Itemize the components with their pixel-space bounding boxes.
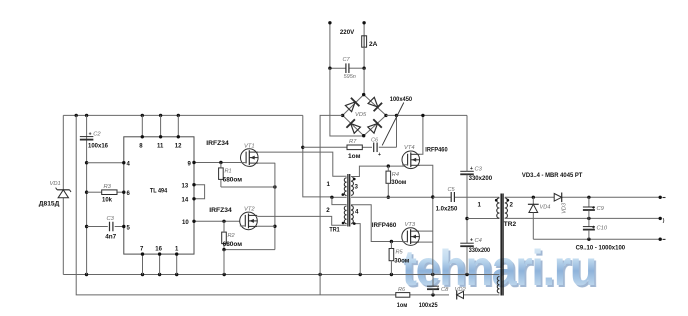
svg-text:11: 11 (157, 144, 164, 150)
label C2 value 100x16 (88, 142, 108, 149)
svg-text:+: + (378, 152, 381, 158)
label R3 value 10k (102, 196, 112, 203)
resistor R7 (347, 145, 362, 150)
capacitor C4 bus (330x200) (460, 243, 474, 246)
label C5 value 1.0x250 (436, 206, 458, 213)
resistor R2 (222, 221, 227, 249)
capacitor C8 (427, 275, 439, 295)
svg-text:680ом: 680ом (223, 241, 243, 248)
wire AC left to bridge bottom (330, 68, 364, 136)
wire left frame down to ground rail (62, 115, 64, 274)
svg-text:12: 12 (175, 144, 182, 150)
svg-text:10k: 10k (102, 196, 112, 203)
svg-text:14: 14 (182, 198, 189, 204)
wire second rail (aux +12 feed) (76, 115, 396, 295)
label R5 value 30ом (394, 257, 409, 264)
label C9..10 - 1000x100 (576, 245, 626, 252)
label R7 (349, 139, 357, 145)
svg-text:C9: C9 (597, 206, 605, 212)
svg-text:2A: 2A (369, 41, 378, 48)
wire pin 9 to VT1 gate (192, 161, 246, 164)
svg-text:+: + (89, 131, 92, 137)
capacitor C2 (80, 137, 94, 140)
bridge diode top-right (367, 96, 382, 111)
svg-text:VD3..4 - MBR 4045 PT: VD3..4 - MBR 4045 PT (522, 172, 583, 179)
diode VD2 (457, 290, 464, 299)
label VD3 rotated (562, 202, 568, 214)
label VT4 (404, 145, 415, 151)
svg-text:VD4: VD4 (540, 205, 551, 211)
transistor VT1 IRFZ34 (241, 149, 259, 167)
label TR1 winding 1 (327, 181, 331, 188)
wire R1 to source rail (221, 185, 277, 188)
svg-text:680ом: 680ом (223, 176, 243, 183)
fuse FU1 2A (362, 36, 367, 68)
wire output bottom (533, 238, 665, 241)
label VT2 (244, 207, 255, 213)
svg-text:Д815Д: Д815Д (39, 200, 60, 207)
svg-text:3: 3 (355, 184, 359, 191)
label +C9 (592, 206, 605, 212)
svg-text:10: 10 (182, 220, 189, 226)
label C3 value 4n7 (105, 234, 116, 241)
svg-text:1ом: 1ом (348, 153, 361, 160)
svg-text:R6: R6 (398, 287, 406, 293)
wire pin 11 stub (159, 115, 162, 138)
resistor R6 (396, 293, 410, 298)
svg-text:100x16: 100x16 (88, 142, 108, 149)
pin label 10 (182, 220, 189, 226)
wire wire2 R6 to VD2 (410, 293, 449, 296)
label R4 value 30ом (391, 179, 406, 186)
diode VD3 (554, 193, 562, 203)
pin labels 7 16 1 (140, 247, 179, 253)
label +C8 (437, 287, 450, 293)
svg-text:C3: C3 (475, 166, 483, 172)
wire pin 12 stub (177, 115, 180, 138)
label TR2 winding 2 (510, 202, 514, 209)
svg-text:VD2: VD2 (455, 287, 467, 293)
label R6 value 1ом (397, 302, 408, 309)
label TR1 winding 3 (355, 184, 359, 191)
label Д815Д value (39, 200, 60, 207)
svg-text:595n: 595n (344, 74, 356, 80)
label TR1 winding 2 (326, 207, 330, 214)
wire TR2 primary bottom (467, 218, 499, 220)
svg-text:4n7: 4n7 (105, 234, 116, 241)
label TR2 winding 1 (478, 202, 482, 209)
svg-text:30ом: 30ом (391, 179, 406, 186)
svg-text:220V: 220V (340, 29, 355, 36)
svg-text:TR2: TR2 (504, 221, 517, 228)
svg-text:R7: R7 (349, 139, 357, 145)
wire output middle (505, 217, 665, 224)
wire TR1 winding4 top to VT3 gate (351, 205, 407, 243)
svg-text:IRFZ34: IRFZ34 (209, 207, 232, 214)
transformer TR1 winding 4 (351, 206, 353, 224)
capacitor C10 (583, 218, 595, 239)
wire TR1 winding3 top to VT4 gate (351, 164, 408, 176)
svg-text:VT3: VT3 (405, 222, 416, 228)
label C5 (448, 187, 456, 193)
wire VT2 source (257, 225, 275, 227)
wire C5 coupling (433, 196, 500, 198)
svg-text:IRFP460: IRFP460 (372, 222, 397, 229)
pin label 4 (127, 162, 131, 168)
wire VT3 drain-source rail (419, 197, 433, 275)
label 2A (369, 41, 378, 48)
pin label 5 (127, 225, 131, 231)
resistor R5 (389, 242, 394, 275)
svg-text:1.0x250: 1.0x250 (436, 206, 458, 213)
svg-text:330x200: 330x200 (469, 247, 491, 254)
watermark tehnari.ru (402, 239, 596, 297)
label R4 (392, 172, 399, 178)
svg-text:1: 1 (327, 181, 331, 188)
label IRFZ34 for VT1 (206, 140, 229, 147)
svg-text:13: 13 (182, 184, 189, 190)
transformer TR1 winding 2 (344, 206, 346, 224)
svg-text:2: 2 (510, 202, 514, 209)
resistor R4 (386, 166, 391, 199)
transformer TR2 aux winding (497, 277, 499, 293)
wire pin 16 stub (158, 252, 161, 274)
wire pin 8 stub (141, 115, 144, 138)
svg-text:+: + (437, 287, 440, 293)
svg-text:+: + (470, 166, 473, 172)
capacitor C5 (451, 192, 454, 202)
TR1 phase dots (342, 178, 356, 225)
label R6 (398, 287, 406, 293)
svg-text:C7: C7 (343, 57, 351, 63)
label 100x450 with pointer (382, 96, 412, 145)
label VT1 (244, 144, 255, 150)
label C8 value 100x25 (419, 302, 438, 309)
svg-text:1ом: 1ом (397, 302, 408, 309)
svg-text:R1: R1 (225, 169, 232, 175)
wire +12V top rail (63, 114, 302, 117)
svg-text:16: 16 (155, 247, 162, 253)
svg-text:C6: C6 (371, 138, 379, 144)
capacitor C3 (110, 222, 113, 232)
wire sources to ground (222, 248, 275, 275)
label C3 (107, 216, 115, 222)
label 220V (340, 29, 355, 36)
bridge rectifier VD5 frame (341, 93, 388, 137)
svg-text:4: 4 (355, 208, 359, 215)
pin labels 8 11 12 (139, 144, 182, 150)
bridge diode bottom-right (367, 119, 382, 134)
svg-text:330x200: 330x200 (469, 175, 493, 182)
transformer TR1 winding 3 (351, 177, 353, 196)
wire bus plus rail down (465, 115, 468, 274)
label R7 value 1ом (348, 153, 361, 160)
label C3 value 330x200 (469, 175, 493, 182)
svg-text:TL 494: TL 494 (150, 187, 167, 194)
IC U1 TL494 box (124, 137, 194, 254)
wire VT2 drain to TR1 winding2 bottom (257, 216, 346, 225)
svg-text:C5: C5 (448, 187, 456, 193)
wire pin 6 with resistor R3 (87, 191, 126, 194)
label TR2 (504, 221, 517, 228)
wire bus plus (386, 114, 467, 117)
label R5 (396, 250, 404, 256)
label TL 494 (150, 187, 167, 194)
capacitor C6 (374, 143, 381, 158)
svg-text:2: 2 (326, 207, 330, 214)
wire VT4 drain to bus (420, 115, 423, 154)
label R1 value 680ом (223, 176, 243, 183)
pin label 14 (182, 198, 189, 204)
svg-text:R3: R3 (104, 184, 112, 190)
zener diode VD1 (56, 188, 71, 198)
label R2 (228, 233, 236, 239)
svg-text:IRFP460: IRFP460 (425, 146, 448, 153)
label R2 value 680ом (223, 241, 243, 248)
transformer TR2 core (501, 194, 503, 296)
svg-text:C8: C8 (441, 287, 449, 293)
wire TR1 center tap feed (301, 115, 332, 196)
wire TR1 winding4 bottom to ground (351, 224, 360, 275)
label R1 (225, 169, 232, 175)
TR2 phase dots (495, 199, 509, 202)
wire C2 branch line (85, 115, 88, 274)
wire 220V terminal left (328, 21, 331, 68)
diode VD4 (528, 197, 539, 239)
label C7 value 595n (344, 74, 356, 80)
svg-text:VT2: VT2 (244, 207, 255, 213)
svg-text:+: + (592, 206, 595, 212)
wire pin 1 stub (175, 252, 178, 274)
label VD5 (355, 112, 367, 118)
wire pin 4 (87, 161, 126, 164)
svg-text:+: + (592, 225, 595, 231)
transistor VT4 IRFP460 (402, 151, 420, 169)
pin label 13 (182, 184, 189, 190)
capacitor C9 (583, 197, 595, 218)
bridge diode bottom-left (346, 119, 361, 134)
label IRFZ34 for VT2 (209, 207, 232, 214)
svg-text:R2: R2 (228, 233, 236, 239)
transformer TR2 winding 2 secondary (505, 198, 508, 218)
wire TR1 w1bottom-w2top tie (330, 196, 346, 205)
pin label 9 (188, 161, 192, 167)
label TR1 winding 4 (355, 208, 359, 215)
wire VT1 drain to TR1 winding1 top (258, 152, 347, 176)
svg-text:R5: R5 (396, 250, 404, 256)
svg-text:TR1: TR1 (329, 226, 340, 233)
svg-text:IRFZ34: IRFZ34 (206, 140, 229, 147)
label VT3 (405, 222, 416, 228)
label IRFP460 for VT4 (425, 146, 448, 153)
label TR1 (329, 226, 340, 233)
pin label 6 (127, 191, 131, 197)
wire C7 node (328, 67, 366, 70)
svg-text:100x25: 100x25 (419, 302, 438, 309)
label +C3 (470, 166, 483, 172)
label VD2 (455, 287, 467, 293)
bridge diode top-left (344, 98, 359, 113)
wire pin 10 to VT2 gate (192, 220, 246, 223)
capacitor C7 (346, 63, 349, 73)
wire AC right to bridge top (363, 68, 365, 94)
label VD4 (540, 205, 551, 211)
transistor VT3 IRFP460 (402, 228, 420, 246)
wire 220V terminal right (362, 21, 365, 36)
svg-text:C2: C2 (93, 132, 101, 138)
wire VT1 source (258, 163, 277, 250)
label C6 (371, 138, 379, 144)
label +C10 (592, 225, 608, 231)
svg-text:C3: C3 (107, 216, 115, 222)
label +C4 (470, 238, 482, 244)
label VD3..4 - MBR 4045 PT (522, 172, 583, 179)
label VD1 (50, 181, 61, 187)
svg-text:C4: C4 (475, 238, 482, 244)
wire pin 5 with capacitor C3 (87, 225, 126, 228)
svg-text:VD5: VD5 (355, 112, 367, 118)
svg-text:C10: C10 (597, 226, 608, 232)
svg-text:+: + (470, 238, 473, 244)
svg-text:C9..10 - 1000x100: C9..10 - 1000x100 (576, 245, 626, 252)
wire pins 13-14 tie (192, 183, 204, 201)
svg-text:): ) (663, 218, 665, 224)
svg-text:1: 1 (478, 202, 482, 209)
label C4 value 330x200 (469, 247, 491, 254)
wire ground bottom rail (63, 273, 499, 276)
transformer TR1 core (348, 174, 350, 227)
svg-text:VD1: VD1 (50, 181, 61, 187)
wire bus minus from bridge (320, 115, 343, 295)
transistor VT2 IRFZ34 (240, 212, 258, 230)
svg-text:VT4: VT4 (404, 145, 415, 151)
label C2 (89, 131, 102, 137)
transformer TR2 winding 1 primary (497, 198, 500, 218)
svg-text:30ом: 30ом (394, 257, 409, 264)
svg-text:VD3: VD3 (562, 202, 568, 214)
wire pin 7 stub (141, 252, 144, 274)
label IRFP460 for VT3 (372, 222, 397, 229)
resistor R1 (219, 163, 224, 188)
wire snubber R7 C6 (303, 115, 397, 147)
wire VT4 source to midpoint (420, 165, 435, 198)
wire TR1 winding3 bottom to midpoint (351, 196, 433, 198)
capacitor C3 bus (330x200) (460, 171, 474, 174)
svg-text:100x450: 100x450 (390, 96, 413, 103)
resistor R3 (102, 190, 117, 195)
wire output top (505, 196, 666, 199)
transformer TR1 winding 1 (344, 178, 346, 196)
wire aux winding bottom wire2 (457, 294, 500, 296)
label C7 (343, 57, 351, 63)
svg-text:R4: R4 (392, 172, 399, 178)
label R3 (104, 184, 112, 190)
